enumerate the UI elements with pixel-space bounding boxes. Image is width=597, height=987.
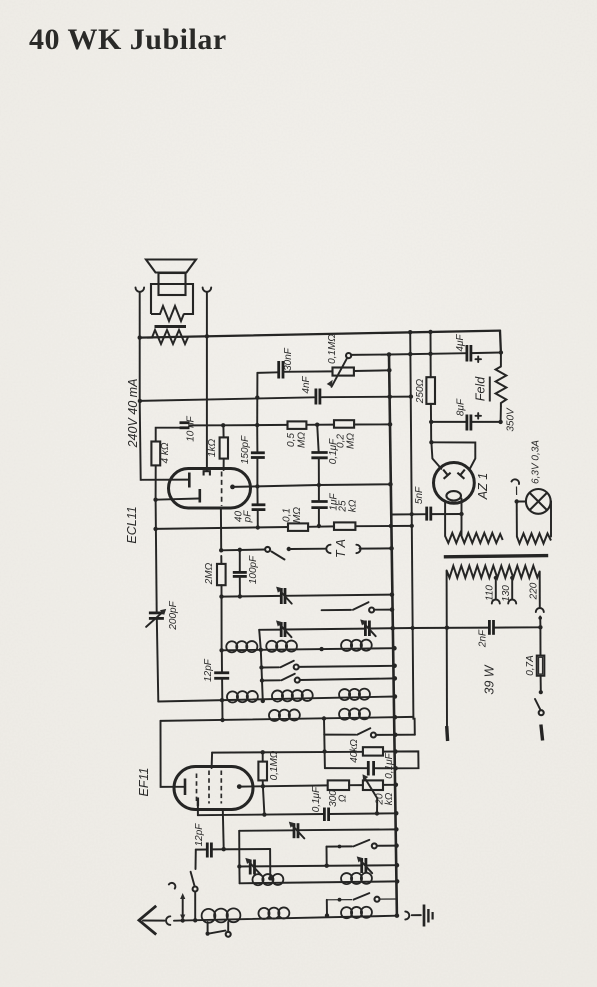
wire trimmer line H29 — [239, 829, 397, 830]
node H2/250 vertical — [428, 352, 432, 356]
node coil tap ant — [268, 876, 272, 880]
capacitor 200pF tuning — [146, 600, 179, 630]
svg-text:AZ 1: AZ 1 — [476, 473, 490, 500]
node 2nF/primary-left — [538, 625, 542, 629]
resistor 4k: top corner wire — [156, 428, 179, 442]
node H35 mid — [325, 913, 329, 917]
tap 220 — [529, 572, 544, 626]
node H19 left — [219, 648, 223, 652]
svg-text:MΩ: MΩ — [292, 507, 303, 523]
wire H30 corner down — [326, 847, 328, 866]
node TA/bus1 — [389, 546, 394, 551]
node H13 left — [153, 527, 157, 531]
svg-text:0,5: 0,5 — [286, 433, 297, 447]
node bus2 cath line — [410, 524, 414, 528]
wire 4uF line H2 — [389, 353, 501, 355]
switch coil short — [206, 922, 231, 937]
wire AZ1 filament stems — [445, 499, 461, 537]
node bus1/pot end — [387, 368, 392, 373]
node AZ1 anode junction — [429, 440, 433, 444]
svg-text:0,1: 0,1 — [282, 508, 293, 522]
wire AZ1 anode leads — [431, 442, 475, 469]
coil ant input group1 — [202, 908, 241, 922]
svg-text:8μF: 8μF — [456, 398, 467, 416]
node V5/top bus — [205, 334, 209, 338]
wire band vertical V11 — [261, 650, 263, 701]
transformer filament winding AZ1 — [445, 533, 503, 543]
svg-text:kΩ: kΩ — [348, 499, 359, 512]
resistor 300Ohm — [328, 780, 349, 806]
speaker voice-coil box — [151, 284, 193, 321]
wire ant coil row H22 — [158, 697, 395, 702]
wire 8uF line H8 — [431, 421, 500, 423]
coil band group2 — [341, 873, 372, 884]
node 8uF line left — [429, 420, 433, 424]
node bus2 osc line — [411, 626, 415, 630]
wire grid below EF11 — [222, 810, 225, 850]
capacitor 2nF — [478, 620, 494, 648]
wire cathode line H28 — [198, 813, 396, 815]
node ant switch — [193, 918, 197, 922]
EF11 grid bar — [184, 779, 187, 796]
wire anode drop V12 — [263, 786, 265, 814]
wire trimmer line H32 — [239, 865, 397, 866]
capacitor 4uF — [455, 334, 481, 362]
ECL11 pentode anode top — [204, 471, 210, 475]
wire osc line H18 — [259, 628, 412, 630]
transformer heater winding lamp — [517, 534, 551, 544]
ECL11 triode grid bar — [188, 473, 191, 488]
wire primary left lead to mains pin — [446, 571, 448, 730]
svg-text:0,1MΩ: 0,1MΩ — [327, 334, 338, 364]
svg-text:kΩ: kΩ — [384, 792, 395, 805]
svg-text:EF11: EF11 — [137, 768, 151, 797]
node H29/bus1 — [394, 827, 399, 832]
ground symbol — [424, 905, 433, 927]
node H16/100pF — [238, 594, 242, 598]
resistor 0.2MOhm — [334, 420, 357, 449]
node H9/1uF vertical — [317, 483, 321, 487]
transformer primary winding — [447, 566, 540, 578]
ECL11 cathode bar — [199, 489, 202, 503]
capacitor 10nF — [180, 415, 223, 441]
wire H18 corner drop — [259, 630, 261, 650]
EF11 grid dashes — [197, 771, 222, 804]
coil RF group1 — [269, 709, 300, 721]
node top bus/250 — [428, 330, 432, 334]
node H27/0.1M bottom — [261, 784, 265, 788]
svg-text:T A: T A — [334, 539, 348, 558]
node H2/bus2 — [408, 352, 412, 356]
node bus2 top — [408, 330, 412, 334]
wire 30nF drop — [256, 373, 258, 425]
resistor 0.1MOhm grid leak — [282, 507, 309, 531]
node H30/bus1 — [394, 843, 399, 848]
node V11/sw1 — [259, 665, 263, 669]
resistor 0.5MOhm — [286, 421, 308, 448]
svg-text:MΩ: MΩ — [346, 433, 357, 449]
node H22/bus1 — [393, 694, 398, 699]
coupling arrow — [169, 881, 185, 920]
svg-text:250Ω: 250Ω — [415, 378, 426, 404]
svg-text:130: 130 — [501, 585, 512, 602]
wire ground dash — [412, 914, 421, 916]
resistor 1kOhm — [207, 425, 228, 470]
wire bus2 V23 — [410, 332, 415, 735]
svg-text:4 kΩ: 4 kΩ — [160, 442, 171, 463]
trimmer cap AVC — [276, 587, 292, 604]
coil osc group2 — [266, 641, 297, 652]
node lamp left — [515, 499, 519, 503]
node H32 left — [237, 864, 241, 868]
wire U-stub 40k to 0.1uF — [395, 751, 418, 768]
label TA — [334, 539, 348, 558]
svg-text:0,1MΩ: 0,1MΩ — [269, 750, 280, 780]
wire left vertical V2 — [156, 500, 159, 702]
resistor 250Ohm vertical — [415, 332, 435, 442]
switch TA — [265, 547, 291, 560]
node primary-left/2nF line — [445, 626, 449, 630]
switch row H30 — [327, 840, 397, 849]
tube ECL11 envelope — [125, 469, 251, 544]
node H13/1uF — [317, 524, 321, 528]
svg-text:350V: 350V — [506, 407, 517, 432]
wire osc coil row H19 — [222, 648, 395, 650]
tap 110 — [485, 576, 500, 604]
node H27/bus1 — [394, 783, 399, 788]
svg-text:4nF: 4nF — [301, 375, 312, 393]
node 8uF line right — [498, 420, 502, 424]
svg-text:2MΩ: 2MΩ — [204, 562, 215, 585]
node H22/grid vertical — [220, 698, 224, 702]
output transformer core — [155, 325, 187, 328]
EF11 cathode bar — [197, 798, 199, 807]
label 240V 40mA — [126, 379, 140, 449]
resistor 2MOhm — [204, 562, 226, 585]
wire top bus right corner down — [499, 331, 502, 353]
terminal TA left hook — [326, 545, 330, 553]
coil band group1 — [252, 874, 283, 885]
capacitor 0.1uF right — [368, 752, 395, 778]
wire AVC line H16 — [222, 595, 392, 597]
wire ECL11 cathode lead H10 — [156, 499, 199, 500]
svg-text:0,1μF: 0,1μF — [328, 438, 339, 464]
trimmer cap osc B — [360, 619, 376, 636]
node bus2 5nF — [410, 512, 414, 516]
terminal hook ground lead — [405, 912, 409, 920]
svg-text:1kΩ: 1kΩ — [207, 439, 218, 458]
svg-text:5nF: 5nF — [414, 486, 425, 504]
node V1/top bus — [138, 335, 142, 339]
wire V14 drop to line H32 — [238, 831, 240, 884]
wire cathode line H13 — [156, 526, 412, 529]
trimmer cap band B — [245, 858, 260, 875]
capacitor 5nF — [414, 486, 431, 521]
capacitor 12pF ant — [194, 823, 270, 858]
switch row H34 — [327, 893, 396, 902]
coil osc group3 — [341, 640, 372, 651]
label 39W — [483, 664, 497, 694]
wire H34 corner down — [326, 900, 328, 916]
potentiometer 20kOhm — [363, 774, 396, 813]
node H23/bus1 — [393, 715, 398, 720]
lamp pilot 6.3V — [517, 440, 551, 514]
wire band vertical V17 — [323, 719, 326, 769]
switch band row H21 — [262, 674, 395, 683]
terminal hook lamp — [512, 479, 520, 495]
node 150pF top — [255, 423, 259, 427]
node H19/bus1 — [392, 646, 397, 651]
resistor 40kOhm — [349, 739, 383, 763]
coil ant group1 — [227, 691, 258, 703]
svg-text:Feld: Feld — [474, 376, 488, 401]
wire bus1 V22 — [389, 355, 397, 916]
svg-text:12pF: 12pF — [194, 823, 205, 847]
svg-text:30nF: 30nF — [283, 347, 294, 371]
wire HT line H6 — [140, 397, 411, 401]
svg-text:4μF: 4μF — [455, 334, 466, 352]
node H25/0.1M — [261, 750, 265, 754]
capacitor 12pF osc — [203, 658, 229, 682]
node H23/grid vertical — [220, 718, 224, 722]
wire coil row H33 — [240, 881, 398, 883]
node H21/bus1 — [393, 676, 398, 681]
trimmer cap band C — [357, 856, 373, 873]
wire cath bypass line H26 — [325, 767, 397, 769]
coil osc group1 — [226, 641, 257, 652]
node H16 left — [219, 594, 223, 598]
wire TA line H14 — [221, 549, 326, 551]
svg-text:220: 220 — [529, 582, 540, 600]
coil ant input group3 — [341, 907, 372, 919]
svg-text:6,3V 0,3A: 6,3V 0,3A — [531, 440, 542, 484]
node H32/bus1 — [395, 863, 400, 868]
node H19 mid — [319, 647, 323, 651]
node bus1/HT — [387, 395, 392, 400]
resistor 0.1MOhm EF11 — [258, 750, 280, 786]
terminal hook right speaker — [203, 288, 212, 292]
node H33/bus1 — [395, 879, 400, 884]
node H17/bus1 — [390, 607, 395, 612]
capacitor 1uF — [311, 485, 339, 526]
antenna symbol — [139, 906, 165, 935]
wire TA to bus — [360, 547, 392, 549]
wire lamp drops — [517, 501, 551, 536]
node 30nF/HT — [255, 395, 259, 399]
capacitor 150pF — [240, 425, 265, 486]
node bus1/screen — [388, 422, 393, 427]
EF11 anode — [237, 784, 242, 789]
wire antenna line H35 — [174, 916, 397, 921]
tap 130 — [501, 576, 516, 604]
svg-text:2nF: 2nF — [478, 629, 489, 648]
wire switch row H17 — [322, 602, 392, 612]
svg-text:39 W: 39 W — [483, 664, 497, 694]
fuse 0.7A — [525, 627, 544, 692]
svg-text:150pF: 150pF — [240, 435, 251, 464]
node H16/bus1 — [390, 592, 395, 597]
svg-text:110: 110 — [485, 585, 496, 601]
wire EF11 cathode stem — [197, 806, 199, 815]
wire EF11 anode line H27 — [239, 785, 395, 787]
node H25/bus1 — [393, 749, 398, 754]
node H28/bus1 — [394, 811, 399, 816]
svg-text:ECL11: ECL11 — [125, 506, 139, 543]
capacitor 8uF — [456, 398, 482, 430]
ECL11 triode anode — [230, 485, 257, 490]
node H13/40pF — [256, 525, 260, 529]
resistor 4kOhm — [151, 442, 171, 500]
capacitor 4nF — [301, 375, 320, 404]
svg-text:0,1μF: 0,1μF — [311, 786, 322, 812]
speaker magnet — [159, 273, 186, 295]
svg-text:40 WK Jubilar: 40 WK Jubilar — [29, 23, 227, 56]
switch band row H20 — [262, 661, 395, 670]
svg-text:MΩ: MΩ — [297, 432, 308, 448]
mains pin left — [445, 726, 449, 741]
node H2 right corner — [499, 350, 503, 354]
node cathode/4k — [153, 498, 157, 502]
terminal TA right hook — [356, 545, 360, 553]
potentiometer 0.1MOhm — [327, 334, 390, 387]
node bus2 HT — [409, 394, 413, 398]
svg-text:12pF: 12pF — [203, 658, 214, 682]
capacitor 100pF — [233, 548, 259, 597]
svg-text:pF: pF — [243, 510, 254, 524]
wire EF11 grid lead — [174, 786, 184, 788]
node 150pF-40pF/anode — [255, 484, 259, 488]
resistor 25kOhm — [334, 499, 359, 530]
terminal hook left speaker — [136, 288, 145, 292]
svg-text:240V 40 mA: 240V 40 mA — [126, 379, 140, 449]
coil ant group3 — [339, 689, 370, 700]
svg-text:40kΩ: 40kΩ — [349, 739, 360, 763]
node V11/sw2 — [260, 678, 264, 682]
wire top bus — [140, 331, 500, 338]
node H23 right tap — [322, 716, 326, 720]
node 1k top — [221, 423, 225, 427]
node 12pF/grid — [222, 847, 226, 851]
wire 5nF line H12 — [391, 513, 462, 516]
wire H23 left corner down — [161, 721, 175, 787]
node H28/wiper — [375, 811, 379, 815]
node grid/TA line — [219, 548, 223, 552]
node 5nF/filament — [459, 512, 463, 516]
capacitor 0.1uF cathode — [311, 786, 329, 821]
terminal hook antenna — [166, 916, 170, 925]
coil RF group2 — [339, 708, 370, 720]
node H25/V17 — [322, 749, 326, 753]
wire ECL grid vertical V6 — [221, 508, 223, 721]
node H24/bus1 — [393, 733, 398, 738]
capacitor 30nF — [257, 347, 332, 378]
svg-text:0,1μF: 0,1μF — [384, 752, 395, 778]
node H32 mid — [325, 864, 329, 868]
node H20/bus1 — [392, 664, 397, 669]
wire screen line H7 — [223, 423, 390, 426]
tube EF11 envelope — [137, 767, 253, 810]
svg-text:10 nF: 10 nF — [186, 415, 197, 441]
wire 12pF corner to coil — [269, 849, 271, 878]
switch antenna — [191, 850, 198, 920]
node H26/bus1 — [393, 766, 398, 771]
wire anode line H9 — [257, 484, 390, 486]
node H28/anode drop — [262, 812, 266, 816]
ECL11 screen dash divider — [221, 472, 223, 507]
node bus1/pot wiper — [387, 352, 392, 357]
output transformer winding — [147, 330, 188, 344]
coil ant input group2 — [258, 907, 289, 919]
transformer core — [444, 556, 548, 557]
switch RF row H24 — [324, 728, 415, 737]
switch mains — [535, 690, 544, 715]
trimmer cap osc A — [276, 620, 292, 637]
mains pin right — [541, 725, 543, 741]
wire screen line H25 — [212, 752, 395, 753]
wire RF coil row H23 — [161, 717, 414, 721]
coil ant group2 — [272, 690, 313, 702]
speaker horn — [146, 260, 196, 273]
resistor Feld field coil — [474, 353, 517, 432]
node V1/HT line — [138, 399, 142, 403]
svg-text:Ω: Ω — [338, 794, 349, 802]
svg-text:100pF: 100pF — [248, 555, 259, 584]
wire left vertical V1 — [140, 292, 141, 480]
node H22 tap — [261, 699, 265, 703]
capacitor 40pF — [234, 486, 266, 527]
wire ECL11 grid lead H11 — [141, 479, 188, 481]
tube AZ1 — [434, 463, 491, 504]
wire speaker right vertical V5 — [206, 292, 208, 471]
node H13/bus1 — [389, 524, 393, 528]
node ant coupling — [181, 918, 185, 922]
wire 2nF line H18 right part — [413, 626, 541, 629]
wire screen drop into EF11 — [211, 753, 214, 768]
node H18/bus1 — [390, 626, 395, 631]
capacitor 0.1uF coupling — [311, 423, 339, 486]
node H19 tap — [259, 648, 263, 652]
trimmer cap band A — [289, 822, 305, 839]
svg-text:0,7A: 0,7A — [525, 655, 536, 676]
node H35/bus1 end — [395, 913, 400, 918]
svg-text:200pF: 200pF — [168, 600, 179, 630]
node bus1/anode line — [388, 482, 393, 487]
